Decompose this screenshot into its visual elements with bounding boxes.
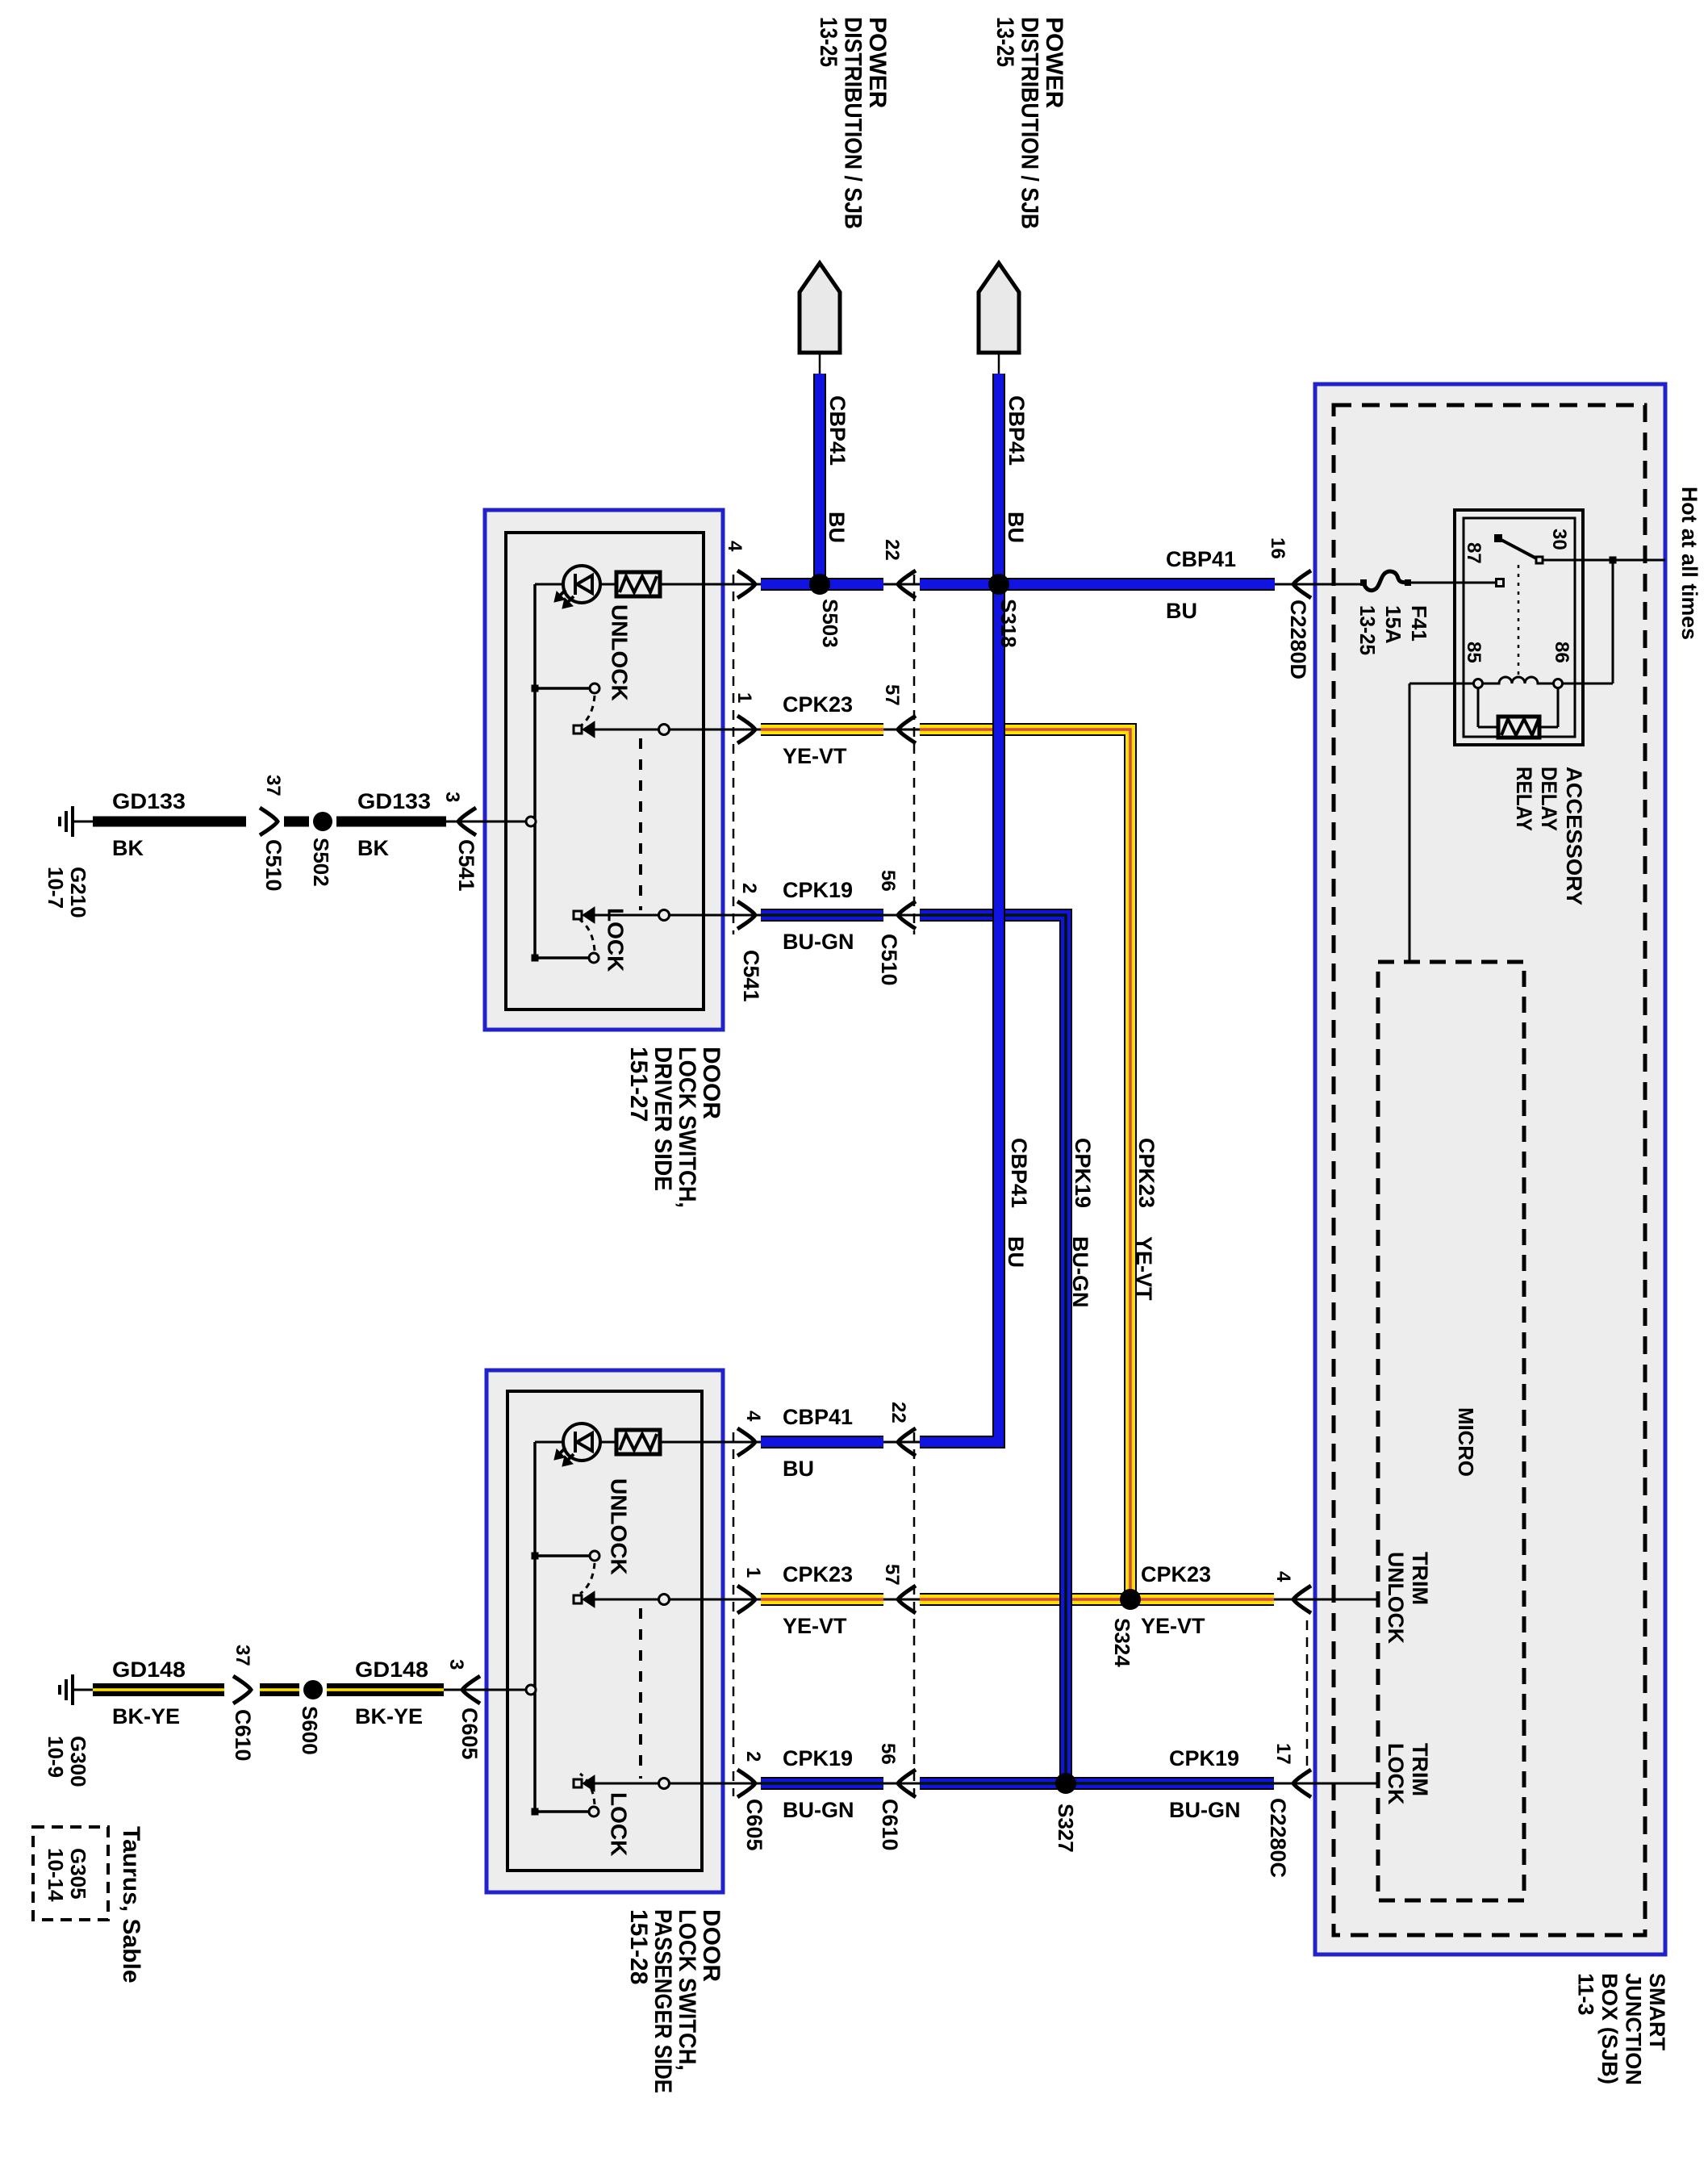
svg-text:S600: S600 <box>298 1706 322 1755</box>
svg-text:S502: S502 <box>309 838 333 887</box>
svg-text:22: 22 <box>887 1402 909 1423</box>
svg-text:57: 57 <box>881 684 903 706</box>
svg-text:BK: BK <box>112 836 144 860</box>
svg-text:G300: G300 <box>66 1736 90 1787</box>
svg-text:S503: S503 <box>818 599 842 648</box>
svg-text:C510: C510 <box>877 934 901 986</box>
svg-text:CBP41: CBP41 <box>1004 395 1029 466</box>
svg-text:CBP41: CBP41 <box>825 395 850 466</box>
svg-text:13-25: 13-25 <box>815 17 841 67</box>
svg-text:GD133: GD133 <box>112 789 186 813</box>
svg-text:S318: S318 <box>996 599 1021 648</box>
svg-text:3: 3 <box>445 1659 467 1670</box>
svg-text:UNLOCK: UNLOCK <box>607 1478 632 1575</box>
svg-text:BOX (SJB): BOX (SJB) <box>1597 1973 1622 2084</box>
svg-text:Hot at all times: Hot at all times <box>1677 487 1702 640</box>
svg-text:ACCESSORY: ACCESSORY <box>1562 767 1586 905</box>
svg-text:YE-VT: YE-VT <box>1132 1236 1156 1301</box>
svg-text:BU-GN: BU-GN <box>1068 1236 1092 1308</box>
svg-text:GD148: GD148 <box>112 1657 186 1682</box>
svg-text:S327: S327 <box>1054 1804 1078 1853</box>
svg-text:3: 3 <box>441 792 463 802</box>
svg-text:POWER: POWER <box>864 17 891 109</box>
svg-text:GD133: GD133 <box>357 789 431 813</box>
svg-text:CPK19: CPK19 <box>1169 1746 1239 1770</box>
svg-text:BU: BU <box>783 1457 814 1481</box>
svg-text:CPK23: CPK23 <box>1141 1562 1211 1586</box>
svg-text:13-25: 13-25 <box>992 17 1018 67</box>
svg-text:CBP41: CBP41 <box>783 1405 853 1429</box>
svg-text:4: 4 <box>742 1411 764 1422</box>
svg-text:UNLOCK: UNLOCK <box>608 604 633 701</box>
svg-text:86: 86 <box>1551 642 1572 663</box>
svg-text:C610: C610 <box>878 1799 902 1851</box>
svg-text:C510: C510 <box>261 839 286 892</box>
svg-text:C2280D: C2280D <box>1286 600 1310 679</box>
svg-text:LOCK: LOCK <box>607 1792 632 1856</box>
svg-text:56: 56 <box>877 1743 899 1765</box>
svg-text:C605: C605 <box>457 1708 482 1760</box>
svg-text:POWER: POWER <box>1041 17 1067 109</box>
svg-text:1: 1 <box>733 692 755 703</box>
svg-text:S324: S324 <box>1110 1618 1134 1667</box>
svg-text:C605: C605 <box>742 1799 766 1851</box>
svg-text:G305: G305 <box>66 1848 90 1900</box>
svg-text:DISTRIBUTION / SJB: DISTRIBUTION / SJB <box>1017 17 1043 229</box>
svg-text:F41: F41 <box>1407 605 1431 642</box>
svg-text:56: 56 <box>877 870 899 892</box>
svg-text:LOCK SWITCH,: LOCK SWITCH, <box>674 1047 700 1208</box>
svg-text:30: 30 <box>1548 529 1570 550</box>
svg-text:BU: BU <box>1004 1236 1028 1268</box>
svg-text:10-9: 10-9 <box>44 1736 68 1778</box>
svg-text:UNLOCK: UNLOCK <box>1384 1552 1408 1644</box>
svg-text:10-14: 10-14 <box>44 1848 68 1902</box>
svg-text:C610: C610 <box>231 1709 255 1762</box>
svg-text:CPK23: CPK23 <box>1134 1138 1159 1208</box>
svg-text:C541: C541 <box>454 839 478 892</box>
svg-text:CPK19: CPK19 <box>783 878 853 902</box>
svg-text:TRIM: TRIM <box>1408 1743 1432 1796</box>
svg-text:BK-YE: BK-YE <box>112 1704 180 1729</box>
svg-text:CPK19: CPK19 <box>783 1746 853 1770</box>
svg-text:57: 57 <box>881 1564 903 1586</box>
svg-text:151-27: 151-27 <box>625 1047 652 1122</box>
svg-text:CPK23: CPK23 <box>783 692 853 717</box>
svg-text:DOOR: DOOR <box>698 1047 725 1119</box>
svg-text:YE-VT: YE-VT <box>783 1614 847 1638</box>
svg-text:TRIM: TRIM <box>1408 1552 1432 1605</box>
svg-text:YE-VT: YE-VT <box>783 744 847 768</box>
svg-text:11-3: 11-3 <box>1573 1973 1597 2016</box>
svg-text:PASSENGER SIDE: PASSENGER SIDE <box>649 1909 676 2093</box>
svg-text:BU: BU <box>825 512 849 543</box>
svg-text:DRIVER SIDE: DRIVER SIDE <box>649 1047 676 1191</box>
svg-text:BU-GN: BU-GN <box>783 1798 854 1822</box>
svg-text:CBP41: CBP41 <box>1007 1138 1031 1208</box>
svg-text:85: 85 <box>1463 642 1485 663</box>
svg-text:15A: 15A <box>1381 605 1405 644</box>
svg-text:2: 2 <box>738 883 760 893</box>
svg-text:BU-GN: BU-GN <box>783 930 854 954</box>
svg-text:37: 37 <box>262 775 284 796</box>
svg-text:CPK23: CPK23 <box>783 1562 853 1586</box>
svg-text:BK-YE: BK-YE <box>355 1704 423 1729</box>
svg-text:151-28: 151-28 <box>625 1909 652 1984</box>
svg-text:2: 2 <box>742 1751 764 1762</box>
svg-text:C2280C: C2280C <box>1266 1798 1290 1878</box>
svg-text:DELAY: DELAY <box>1537 767 1561 831</box>
svg-text:LOCK SWITCH,: LOCK SWITCH, <box>674 1909 700 2071</box>
svg-text:16: 16 <box>1267 537 1288 559</box>
svg-text:LOCK: LOCK <box>603 908 628 972</box>
svg-text:17: 17 <box>1272 1743 1294 1765</box>
svg-text:RELAY: RELAY <box>1512 767 1536 831</box>
svg-text:BU: BU <box>1166 599 1197 623</box>
svg-text:BK: BK <box>357 836 389 860</box>
svg-text:DISTRIBUTION / SJB: DISTRIBUTION / SJB <box>840 17 867 229</box>
svg-text:4: 4 <box>724 541 745 552</box>
svg-text:JUNCTION: JUNCTION <box>1621 1973 1645 2085</box>
svg-text:GD148: GD148 <box>355 1657 428 1682</box>
svg-text:4: 4 <box>1272 1571 1294 1582</box>
svg-text:YE-VT: YE-VT <box>1141 1614 1205 1638</box>
svg-text:BU-GN: BU-GN <box>1169 1798 1241 1822</box>
svg-text:CBP41: CBP41 <box>1166 547 1236 571</box>
svg-text:37: 37 <box>232 1645 253 1666</box>
svg-text:MICRO: MICRO <box>1454 1407 1478 1477</box>
svg-text:G210: G210 <box>66 867 90 918</box>
svg-text:13-25: 13-25 <box>1355 605 1380 655</box>
svg-text:1: 1 <box>742 1567 764 1578</box>
svg-text:C541: C541 <box>739 950 763 1002</box>
svg-text:87: 87 <box>1463 542 1485 564</box>
svg-text:CPK19: CPK19 <box>1071 1138 1095 1208</box>
svg-text:SMART: SMART <box>1645 1973 1669 2050</box>
svg-text:LOCK: LOCK <box>1384 1743 1408 1805</box>
svg-text:22: 22 <box>881 539 903 561</box>
svg-text:DOOR: DOOR <box>698 1909 725 1982</box>
svg-text:10-7: 10-7 <box>44 867 68 909</box>
svg-text:BU: BU <box>1004 512 1028 543</box>
svg-text:Taurus, Sable: Taurus, Sable <box>118 1826 144 1984</box>
